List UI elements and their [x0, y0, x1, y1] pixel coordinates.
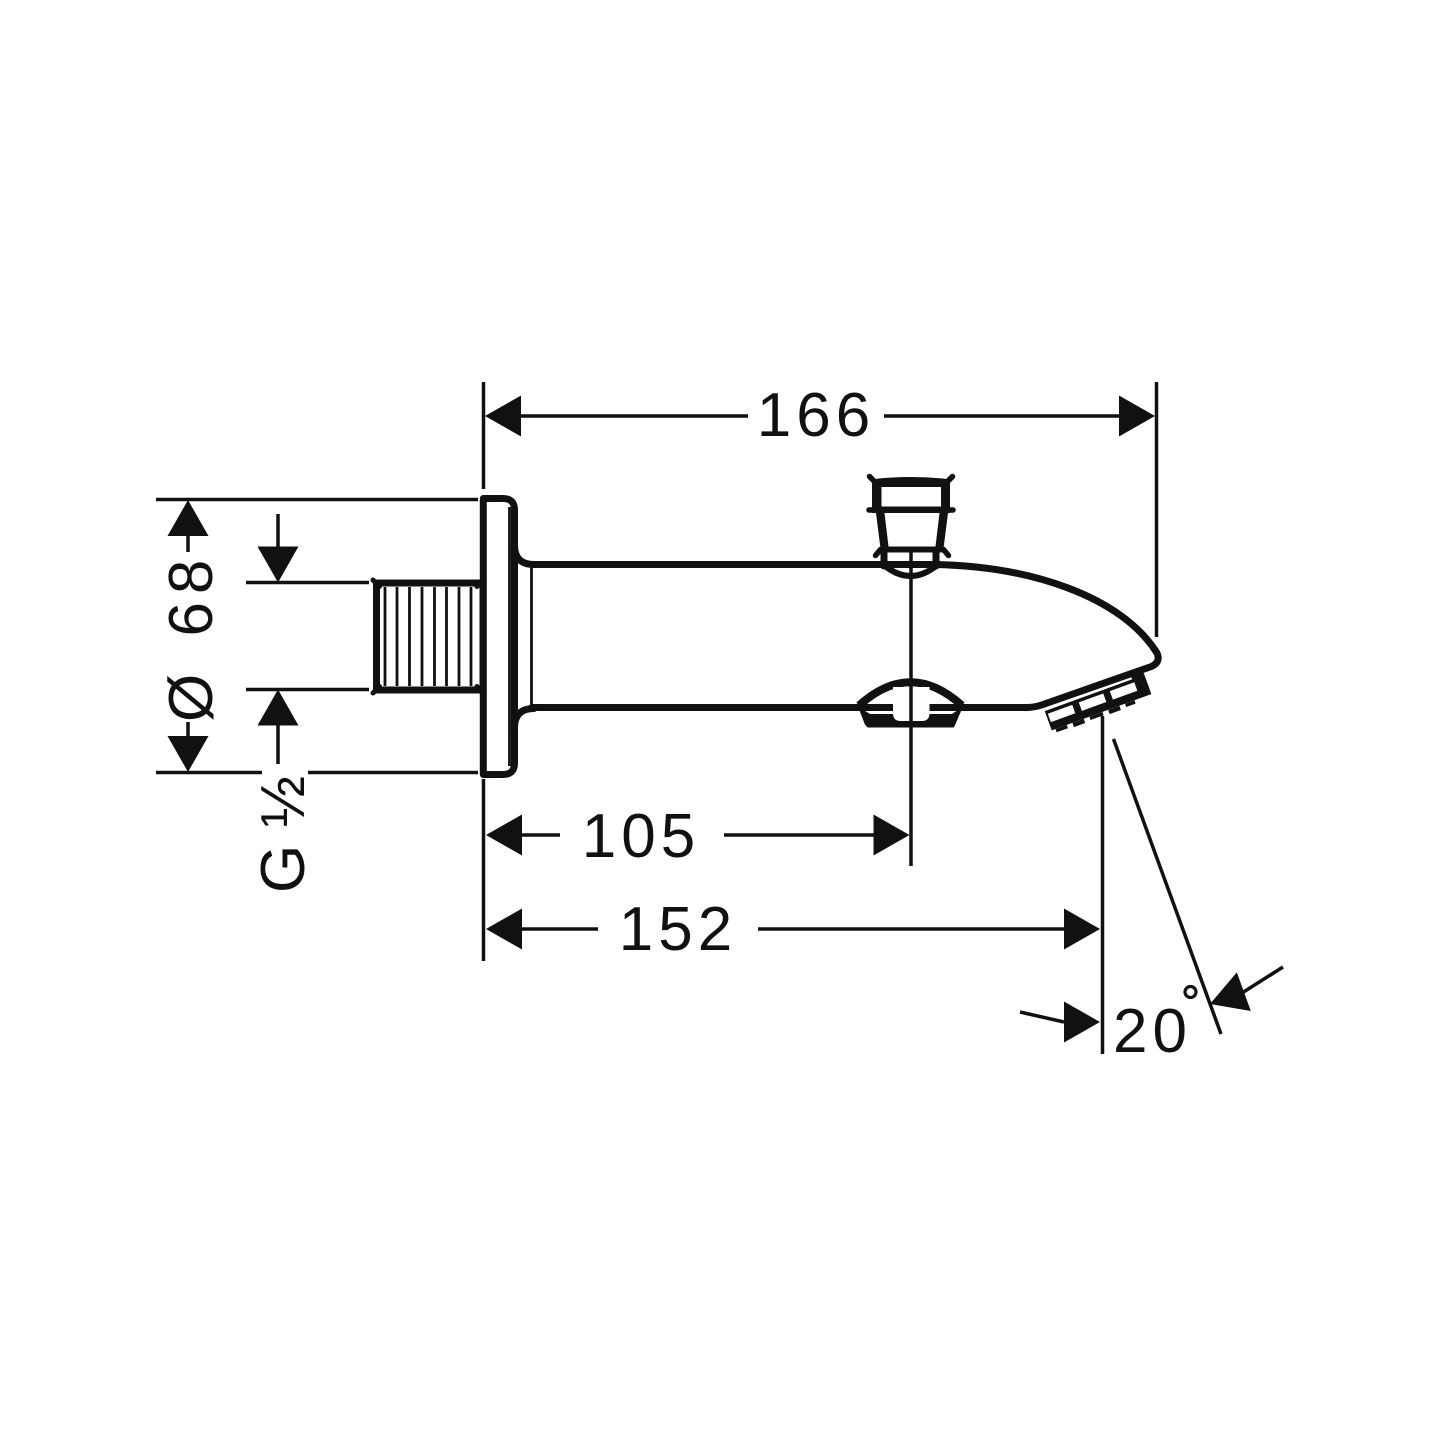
- aerator slots: [1048, 705, 1076, 722]
- dim 166 line left segment: [520, 414, 748, 418]
- dim 166 line right segment: [884, 414, 1120, 418]
- degree symbol circle: [1185, 987, 1196, 998]
- dim D68 bottom extension line: [156, 771, 478, 775]
- nipple corner ticks: [373, 580, 481, 693]
- dim D68 top extension line: [156, 498, 478, 502]
- centerline through knob and diverter: [909, 551, 913, 866]
- dim 166 arrow right: [1119, 396, 1155, 437]
- dim 105 line right segment: [724, 833, 876, 837]
- thread dim top extension line: [246, 581, 369, 585]
- dim 105 arrow left: [486, 815, 522, 856]
- dim 152 right extension line: [1101, 716, 1105, 1054]
- 20 deg arrow right: [1203, 972, 1251, 1023]
- dim 105 arrow right: [874, 815, 910, 856]
- diverter corner notch right: [953, 719, 962, 728]
- diverter corner notch left: [859, 719, 868, 728]
- svg-text:166: 166: [757, 381, 875, 450]
- flange face inner edge line: [508, 507, 511, 766]
- knob neck: [884, 550, 936, 566]
- aerator right step: [1130, 668, 1150, 693]
- thread dim arrow up: [258, 690, 299, 726]
- cone fillet top: [515, 545, 535, 565]
- thread dim bottom extension line: [246, 688, 369, 692]
- wall plane extension line lower: [482, 779, 486, 961]
- dim 152 arrow right: [1064, 909, 1100, 950]
- aerator bar: [1045, 675, 1152, 731]
- tier1 white window: [882, 487, 942, 507]
- cone fillet bottom: [515, 709, 535, 729]
- aerator teeth: [1055, 725, 1067, 732]
- dim 105 line left segment: [520, 833, 560, 837]
- dim 152 arrow left: [486, 909, 522, 950]
- svg-text:152: 152: [619, 895, 737, 964]
- knob tier2: [876, 513, 948, 553]
- thread dim arrow down: [258, 547, 299, 583]
- aerator group: [1042, 668, 1153, 735]
- dim 166 arrow left: [485, 396, 521, 437]
- svg-text:105: 105: [582, 802, 700, 871]
- knob skirt arc: [885, 566, 936, 576]
- thread hatch lines: [385, 587, 471, 686]
- knob chamfer ticks: [869, 477, 953, 556]
- dim D68 stub top: [186, 536, 190, 552]
- dim 166 right extension line: [1155, 382, 1159, 637]
- check valve knob tier1 cap: [872, 477, 950, 513]
- dim D68 arrow down: [168, 736, 209, 772]
- thread dim stub top: [276, 514, 280, 548]
- svg-text:20: 20: [1113, 997, 1192, 1066]
- thread dim stub bottom: [276, 725, 280, 764]
- 20 deg arrow left: [1064, 1002, 1100, 1043]
- 20 deg angled line: [1114, 739, 1222, 1034]
- diverter dome arc: [859, 682, 962, 705]
- dim 152 line right segment: [758, 927, 1066, 931]
- diverter white window: [893, 687, 930, 721]
- diverter bottom band: [858, 707, 963, 728]
- knob neck feet: [878, 554, 943, 566]
- cone tangent line: [530, 567, 533, 706]
- dim D68 stub bottom: [186, 722, 190, 736]
- threaded nipple G1/2 tail: [377, 583, 484, 690]
- 20 deg leader left: [1020, 1012, 1064, 1022]
- wall flange escutcheon: [483, 499, 514, 775]
- dim 166 left extension line: [482, 382, 486, 489]
- tier2 white window: [885, 513, 940, 547]
- svg-text:G ½: G ½: [249, 776, 318, 893]
- dim 152 line left segment: [520, 927, 598, 931]
- spout body outline: [532, 565, 1158, 708]
- 20 deg leader right: [1242, 967, 1283, 993]
- dim D68 arrow up: [168, 500, 209, 536]
- svg-text:Ø 68: Ø 68: [157, 552, 226, 722]
